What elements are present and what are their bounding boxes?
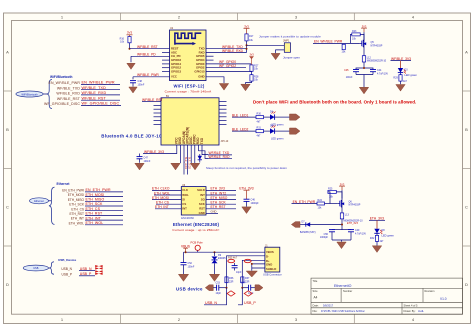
svg-text:File:: File: xyxy=(313,309,318,313)
wire UPDATE down xyxy=(187,145,189,175)
capacitor C74 xyxy=(241,281,255,295)
wire xyxy=(133,76,170,78)
svg-text:3V3: 3V3 xyxy=(362,24,367,28)
svg-text:ETH_CS: ETH_CS xyxy=(86,207,101,211)
svg-text:EthernetIO: EthernetIO xyxy=(334,284,352,288)
wire xyxy=(363,47,365,56)
wire xyxy=(246,41,248,53)
svg-text:ETH_MOSI: ETH_MOSI xyxy=(68,193,84,197)
resistor R31 xyxy=(256,127,264,138)
wire RST to BT xyxy=(142,101,154,103)
net label ETH_3V3 xyxy=(369,217,385,221)
svg-text:ETH_MISO: ETH_MISO xyxy=(211,196,228,200)
wire xyxy=(129,43,131,49)
wire xyxy=(275,130,290,132)
svg-text:10pF: 10pF xyxy=(216,292,222,295)
module U6 ENC28J60 xyxy=(181,184,206,220)
wire xyxy=(325,203,338,205)
svg-text:R31: R31 xyxy=(257,127,262,130)
resistor R37 xyxy=(241,277,250,284)
offsheet arrow xyxy=(290,114,301,120)
svg-text:WiFi (ESP-12): WiFi (ESP-12) xyxy=(173,84,204,89)
svg-text:GND: GND xyxy=(199,211,205,215)
connector P1 pin names xyxy=(44,81,81,106)
svg-text:WF_GPIO/BLE_DISC: WF_GPIO/BLE_DISC xyxy=(44,102,80,106)
capacitor C52 xyxy=(181,252,195,274)
svg-text:R24: R24 xyxy=(318,199,323,202)
net label EN_WF/BLE_PWR xyxy=(313,40,360,44)
transistor Q6 xyxy=(338,190,361,208)
wire UPDA down xyxy=(183,145,185,175)
svg-text:VBUS: VBUS xyxy=(181,244,191,248)
junction xyxy=(241,287,243,289)
ground xyxy=(337,242,346,249)
svg-text:Jumper makes it possible to up: Jumper makes it possible to update modul… xyxy=(259,34,321,38)
svg-text:D:\PCB\..\WiFi USB SubDocs.Sch: D:\PCB\..\WiFi USB SubDocs.SchDoc xyxy=(321,309,366,313)
ground xyxy=(129,87,137,93)
svg-text:SI: SI xyxy=(182,197,185,201)
wire to jumper xyxy=(247,44,285,46)
junction xyxy=(129,48,131,50)
wire xyxy=(251,71,253,74)
svg-text:ETH_RST: ETH_RST xyxy=(211,205,226,209)
pin stubs left xyxy=(162,53,170,72)
module pin names xyxy=(266,250,276,271)
module bottom pin names xyxy=(175,127,204,144)
resistor R30 xyxy=(256,113,264,124)
svg-text:R29: R29 xyxy=(393,76,398,79)
svg-text:WF/BLE_RST: WF/BLE_RST xyxy=(57,97,81,101)
svg-text:ETH_SCK: ETH_SCK xyxy=(211,201,227,205)
svg-text:Ethernet: Ethernet xyxy=(34,200,44,203)
wire VCC down xyxy=(143,145,177,154)
svg-text:Sheet 4 of 5: Sheet 4 of 5 xyxy=(404,303,419,307)
ground xyxy=(241,84,250,91)
svg-text:4k7: 4k7 xyxy=(257,120,262,123)
svg-text:BAS085 (SST): BAS085 (SST) xyxy=(300,231,316,234)
svg-text:ETH_INT: ETH_INT xyxy=(86,216,102,220)
svg-text:WF/BLE_PWR: WF/BLE_PWR xyxy=(137,73,159,77)
resistor R27 xyxy=(250,65,259,72)
svg-text:R25: R25 xyxy=(328,187,333,190)
svg-text:WF/BLE_TXD: WF/BLE_TXD xyxy=(82,86,107,90)
wire xyxy=(341,209,343,213)
ground xyxy=(190,163,199,170)
svg-text:AvdL: AvdL xyxy=(418,309,424,313)
svg-text:WF/BLE_RXD: WF/BLE_RXD xyxy=(222,49,244,53)
svg-text:LED green: LED green xyxy=(271,136,284,140)
svg-text:ETH_CS: ETH_CS xyxy=(71,207,84,211)
svg-text:USB_Device: USB_Device xyxy=(58,258,77,262)
svg-text:Current usage : up to 250mA!!: Current usage : up to 250mA!! xyxy=(172,228,219,232)
svg-text:USB_N: USB_N xyxy=(61,267,72,271)
svg-text:WF_GPIO/BLE_DISC: WF_GPIO/BLE_DISC xyxy=(82,102,120,106)
svg-text:C: C xyxy=(6,205,9,210)
svg-text:LED green: LED green xyxy=(405,73,418,77)
svg-text:R23: R23 xyxy=(352,30,357,33)
svg-text:RST: RST xyxy=(199,207,205,211)
net label BLE_LED2 xyxy=(232,127,256,131)
svg-text:USB_P: USB_P xyxy=(80,272,92,276)
wire xyxy=(130,56,132,62)
pin stubs right xyxy=(219,102,227,125)
svg-text:ETH_INT: ETH_INT xyxy=(71,217,84,221)
junction xyxy=(246,48,248,50)
capacitor C46 xyxy=(244,199,260,207)
svg-text:ETH_MISO: ETH_MISO xyxy=(68,198,85,202)
svg-text:ETH_CS: ETH_CS xyxy=(156,201,170,205)
svg-text:USB Connector: USB Connector xyxy=(263,272,282,276)
net label WF/BLE_RXD xyxy=(81,91,120,95)
svg-text:4.7uF/10V: 4.7uF/10V xyxy=(355,233,366,236)
wire xyxy=(400,61,402,68)
off-page connector USB xyxy=(23,258,76,271)
off-page connector WiFi/Bluetooth xyxy=(16,75,73,97)
power 3V3 xyxy=(244,25,250,34)
svg-text:B: B xyxy=(465,127,468,132)
svg-text:L13: L13 xyxy=(345,214,350,217)
junction xyxy=(363,67,365,69)
wire xyxy=(204,288,227,305)
svg-text:1000pF: 1000pF xyxy=(251,202,260,205)
svg-text:WOL: WOL xyxy=(182,193,189,197)
svg-text:100nF: 100nF xyxy=(144,160,151,163)
connector P3 brace xyxy=(49,262,54,274)
wire xyxy=(332,240,351,242)
svg-text:GPIO15: GPIO15 xyxy=(194,69,205,73)
wire xyxy=(132,77,134,80)
title block xyxy=(311,278,463,314)
wire xyxy=(131,55,170,57)
ground xyxy=(372,246,381,253)
capacitor C45 xyxy=(344,68,364,79)
svg-text:22R: 22R xyxy=(229,280,234,283)
power 3V3 xyxy=(127,35,133,37)
wire xyxy=(400,81,402,84)
svg-text:ETH_WOL: ETH_WOL xyxy=(69,221,85,225)
diffpair diamond xyxy=(244,291,252,296)
svg-text:WF_GPIO2: WF_GPIO2 xyxy=(219,64,236,68)
wire xyxy=(276,50,285,53)
svg-text:ETH_WOL: ETH_WOL xyxy=(86,221,104,225)
resistor R17 xyxy=(245,34,254,42)
connector P3 pin names xyxy=(61,267,72,276)
junction xyxy=(246,44,248,46)
wire RXD xyxy=(206,52,247,54)
net label WF/BLE_TXD xyxy=(81,86,120,90)
ground xyxy=(396,85,405,92)
svg-text:100nF: 100nF xyxy=(138,84,145,87)
svg-text:R17: R17 xyxy=(249,35,254,38)
LED D3 xyxy=(398,68,418,77)
net label USB_N xyxy=(79,267,95,271)
net label EN_WF/BLE_PWR xyxy=(81,81,120,85)
jumper JMP1 xyxy=(283,40,291,53)
net label WF/BLE_RST xyxy=(81,96,120,100)
svg-text:ETH_INT: ETH_INT xyxy=(155,205,169,209)
diode D10 xyxy=(198,154,202,163)
svg-text:BLE_LED1: BLE_LED1 xyxy=(184,157,187,169)
svg-text:ETH_RST: ETH_RST xyxy=(86,212,104,216)
junction xyxy=(251,263,253,265)
svg-text:Bluetooth 4.0 BLE JDY-10: Bluetooth 4.0 BLE JDY-10 xyxy=(101,133,162,138)
connector P2 brace xyxy=(49,187,55,224)
svg-text:MI0805M252R-10: MI0805M252R-10 xyxy=(367,60,387,63)
diffpair directive xyxy=(95,270,102,275)
transistor Q5 xyxy=(360,32,383,48)
svg-text:Ethernet: Ethernet xyxy=(57,182,71,186)
pin stubs left xyxy=(154,102,162,125)
wires ENC right xyxy=(206,190,236,213)
svg-text:WiFi/Bluetooth: WiFi/Bluetooth xyxy=(50,75,73,79)
svg-text:5/8/2017: 5/8/2017 xyxy=(323,303,334,307)
svg-text:R30: R30 xyxy=(257,113,262,116)
svg-text:B: B xyxy=(6,127,9,132)
svg-text:4k7: 4k7 xyxy=(380,240,385,243)
wire xyxy=(238,288,242,305)
svg-text:ETH_3V3: ETH_3V3 xyxy=(239,186,253,190)
svg-text:ETH_MOSI: ETH_MOSI xyxy=(152,196,169,200)
resistor R29 xyxy=(393,73,407,83)
wire GND down xyxy=(179,145,181,163)
ground xyxy=(246,271,257,277)
wire xyxy=(43,93,48,95)
wire D- xyxy=(227,256,265,288)
svg-text:D-: D- xyxy=(266,255,269,259)
connector P2 pin names xyxy=(62,189,85,226)
junction xyxy=(214,251,216,253)
LED D4 xyxy=(270,111,284,127)
module pin names right xyxy=(197,188,205,215)
svg-text:EN_WF/BLE_PWR: EN_WF/BLE_PWR xyxy=(48,81,80,85)
svg-text:NTR4003P: NTR4003P xyxy=(371,45,383,48)
svg-text:R35 4k7: R35 4k7 xyxy=(228,256,238,259)
power ETH_3V3 xyxy=(239,186,253,199)
net label WF/BLE_TXD xyxy=(208,151,232,155)
svg-text:Sleep function is not required: Sleep function is not required, the poss… xyxy=(206,166,287,170)
junction oval xyxy=(244,259,251,262)
net label BLE_LED1 xyxy=(232,113,256,117)
ground xyxy=(178,274,188,281)
svg-text:ETH_RST: ETH_RST xyxy=(69,212,84,216)
wire xyxy=(130,48,170,50)
offsheet arrow xyxy=(290,128,301,134)
svg-text:CS: CS xyxy=(182,202,186,206)
inductor L13 xyxy=(340,213,349,219)
svg-text:TXD: TXD xyxy=(200,137,204,144)
ground xyxy=(171,163,180,170)
svg-text:Ethernet (ENC28J60): Ethernet (ENC28J60) xyxy=(173,222,220,227)
wire D+ xyxy=(242,260,265,287)
svg-text:GND: GND xyxy=(211,210,217,214)
capacitor C57 xyxy=(232,263,242,274)
svg-text:A4: A4 xyxy=(314,296,318,300)
junction oval xyxy=(228,259,235,262)
svg-text:C74: C74 xyxy=(241,281,246,284)
svg-text:ETH_3V3: ETH_3V3 xyxy=(211,187,225,191)
capacitor C49 xyxy=(342,229,366,240)
svg-text:WF/BLE_RXD: WF/BLE_RXD xyxy=(82,91,107,95)
wire xyxy=(307,219,343,230)
svg-text:USB_P: USB_P xyxy=(244,301,256,305)
svg-text:3V3: 3V3 xyxy=(340,182,345,186)
svg-text:JMP1: JMP1 xyxy=(283,40,290,43)
svg-text:JDY-10: JDY-10 xyxy=(221,140,229,143)
svg-text:VBUS: VBUS xyxy=(266,250,274,254)
LED D8 xyxy=(374,229,394,238)
resistor R32 xyxy=(370,233,384,243)
svg-text:WF/BLE_PD: WF/BLE_PD xyxy=(137,53,156,57)
svg-text:WF/BLE_TXD: WF/BLE_TXD xyxy=(57,86,81,90)
svg-text:R32: R32 xyxy=(370,237,375,240)
ground xyxy=(135,163,144,170)
svg-text:USB device: USB device xyxy=(176,287,203,292)
net label WF/BLE_3V3 xyxy=(391,57,412,61)
svg-text:INT: INT xyxy=(200,193,205,197)
svg-text:4k7: 4k7 xyxy=(403,80,408,83)
wires ETH bus xyxy=(85,192,123,225)
svg-text:D: D xyxy=(6,282,9,287)
svg-text:LED green: LED green xyxy=(382,233,395,237)
svg-text:SCK: SCK xyxy=(199,202,205,206)
svg-text:C45: C45 xyxy=(344,69,349,72)
svg-text:Size: Size xyxy=(313,289,319,293)
svg-text:EN_ETH_PWR: EN_ETH_PWR xyxy=(86,188,111,192)
svg-text:Revision: Revision xyxy=(425,289,436,293)
module U2 WiFi ESP-12 xyxy=(170,27,207,81)
wire xyxy=(376,241,378,245)
svg-text:4.7uF/10V: 4.7uF/10V xyxy=(377,72,388,75)
svg-text:ETH_SCK: ETH_SCK xyxy=(69,203,85,207)
svg-text:10pF: 10pF xyxy=(236,271,242,274)
svg-text:D: D xyxy=(465,282,468,287)
resistor R24 xyxy=(317,199,325,209)
svg-text:C: C xyxy=(465,205,468,210)
svg-text:ETH_SCK: ETH_SCK xyxy=(86,202,104,206)
svg-text:4k7: 4k7 xyxy=(257,134,262,137)
wire TXD xyxy=(206,48,247,50)
net label EN_ETH_PWR xyxy=(292,200,318,204)
svg-text:Number: Number xyxy=(343,289,352,293)
svg-text:WF/BLE_RST: WF/BLE_RST xyxy=(137,45,158,49)
LED D6 xyxy=(270,125,284,141)
offsheet arrow xyxy=(291,222,300,228)
svg-text:ETH_CLKO: ETH_CLKO xyxy=(152,187,170,191)
svg-text:ETH_3V3: ETH_3V3 xyxy=(347,222,358,225)
net label WF/BLE_RXD xyxy=(208,155,232,159)
wire xyxy=(264,130,271,132)
antenna meander xyxy=(175,33,201,45)
junction xyxy=(341,224,343,226)
svg-text:USB_N: USB_N xyxy=(205,301,217,305)
diffpair directive xyxy=(95,265,102,270)
svg-text:Current usage : 70mA-140mA: Current usage : 70mA-140mA xyxy=(165,90,213,94)
svg-text:WF/BLE_RST: WF/BLE_RST xyxy=(82,96,107,100)
wire xyxy=(49,200,52,202)
svg-text:Drawn By:: Drawn By: xyxy=(404,309,416,313)
wire PWRC down xyxy=(194,145,196,163)
power VBUS xyxy=(181,244,191,252)
offsheet arrow xyxy=(205,285,213,291)
wire DISC down xyxy=(190,145,192,163)
svg-text:V1.0: V1.0 xyxy=(440,297,447,301)
svg-text:ETH_MOSI: ETH_MOSI xyxy=(86,193,105,197)
wire xyxy=(275,116,290,118)
module pin names right xyxy=(194,47,205,79)
svg-text:22R: 22R xyxy=(245,280,250,283)
capacitor C48 xyxy=(130,80,145,86)
wire xyxy=(376,220,378,228)
ground xyxy=(359,87,368,94)
svg-text:ESD05: ESD05 xyxy=(218,257,226,260)
ground xyxy=(209,274,219,281)
diffpair diamond xyxy=(227,291,235,296)
power 3V3 xyxy=(339,182,345,190)
svg-text:WF/BLE_RST: WF/BLE_RST xyxy=(142,98,163,102)
svg-text:WF/BLE_RXD: WF/BLE_RXD xyxy=(56,92,80,96)
ground xyxy=(219,84,228,91)
svg-text:Date:: Date: xyxy=(313,303,319,307)
module pin names left xyxy=(182,188,189,210)
svg-text:USB_N: USB_N xyxy=(80,267,92,271)
connector P1 brace xyxy=(47,80,52,109)
PCB pole xyxy=(191,241,204,253)
wire xyxy=(48,267,50,269)
svg-text:ETH_MISO: ETH_MISO xyxy=(86,198,105,202)
svg-text:USB_P: USB_P xyxy=(62,272,72,276)
svg-text:A: A xyxy=(6,50,9,55)
module pin names left xyxy=(171,47,182,79)
svg-text:WF/BLE_3V3: WF/BLE_3V3 xyxy=(144,150,164,154)
inductor L12 xyxy=(362,56,371,62)
junction xyxy=(226,287,228,289)
capacitor C47 xyxy=(137,154,151,163)
junction xyxy=(185,251,187,253)
resistor R16 xyxy=(120,37,131,44)
svg-text:GPIO13: GPIO13 xyxy=(171,69,182,73)
net label USB_P xyxy=(79,272,95,276)
wire RXD elbow xyxy=(198,145,208,155)
svg-text:USB: USB xyxy=(33,267,38,270)
svg-text:ENC28J60: ENC28J60 xyxy=(181,216,194,220)
svg-text:ETH_INT2: ETH_INT2 xyxy=(211,191,227,195)
wire GPIO15 xyxy=(206,71,252,73)
wires ENC left xyxy=(152,190,181,208)
wire GND xyxy=(206,77,224,83)
svg-text:ETH_WOL: ETH_WOL xyxy=(154,191,170,195)
net labels ETH bus xyxy=(86,188,111,225)
resistor R28 xyxy=(250,75,259,82)
wire xyxy=(246,81,252,84)
ground xyxy=(127,63,135,69)
resistor R36 xyxy=(225,277,234,284)
offsheet arrow xyxy=(255,285,263,291)
svg-text:100nF: 100nF xyxy=(188,266,195,269)
capacitor C53 xyxy=(213,281,226,295)
wire xyxy=(363,62,365,68)
svg-text:PCB Pole: PCB Pole xyxy=(191,241,204,245)
svg-text:A: A xyxy=(465,50,468,55)
ground xyxy=(271,53,280,59)
svg-text:INT: INT xyxy=(182,207,187,211)
resistor R26 xyxy=(342,44,347,53)
wire VBUS rail xyxy=(184,251,265,253)
capacitor C50 xyxy=(320,230,342,240)
resistor R25 xyxy=(328,187,342,203)
svg-text:VCC: VCC xyxy=(171,75,177,79)
resistor R23 xyxy=(351,30,365,44)
net labels ENC left xyxy=(152,187,170,209)
